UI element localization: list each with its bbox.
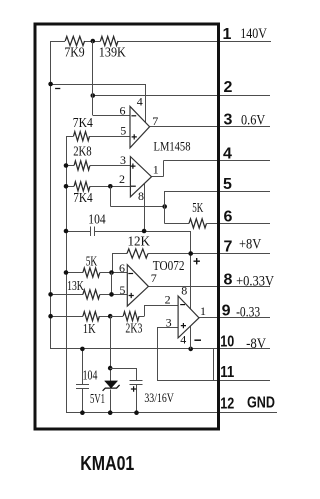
node GND rail / C33 xyxy=(134,410,139,415)
node rail A / 1K xyxy=(48,314,53,319)
resistor R 13K xyxy=(51,279,128,299)
op-amp U1b LM1458 bottom xyxy=(119,153,159,203)
pin 9 number xyxy=(222,302,231,319)
svg-text:-0.33: -0.33 xyxy=(236,304,260,320)
wire op-amp U1b output to pin 4 row xyxy=(152,161,271,177)
wire y84 to op-amp U1 pin 4 xyxy=(51,84,146,124)
capacitor C 104 (horizontal) xyxy=(66,212,191,236)
resistor R 12K xyxy=(112,235,150,259)
op-amp U2b TO072 bottom xyxy=(165,284,206,347)
wire pin 10 row (-8V net) xyxy=(51,348,270,350)
node 13K / U2 pin5 junction xyxy=(109,292,114,297)
wire pin 7 row (+8V net) xyxy=(148,253,270,255)
svg-text:+0.33V: +0.33V xyxy=(236,273,274,289)
svg-text:33/16V: 33/16V xyxy=(144,390,174,405)
pin 9 voltage label -0.33 xyxy=(236,304,260,320)
wire pin 3 row (op U1a output) xyxy=(149,126,270,128)
svg-text:4: 4 xyxy=(137,94,143,108)
svg-text:3: 3 xyxy=(120,153,126,167)
resistor R 7K4 (lower) xyxy=(66,182,130,206)
svg-text:2K8: 2K8 xyxy=(73,145,92,160)
svg-text:+8V: +8V xyxy=(239,237,262,253)
svg-text:4: 4 xyxy=(223,146,232,163)
pin 3 number xyxy=(224,112,233,129)
wire x110.3 down and right to x164.7 xyxy=(110,186,164,206)
svg-text:KMA01: KMA01 xyxy=(80,453,134,475)
svg-text:6: 6 xyxy=(224,208,233,225)
svg-text:8: 8 xyxy=(181,284,187,298)
resistor R 139K xyxy=(99,36,126,60)
pin 5 number xyxy=(223,176,232,193)
svg-text:7K4: 7K4 xyxy=(73,191,93,206)
pin 11 number xyxy=(220,364,234,381)
svg-text:12: 12 xyxy=(220,395,234,412)
pin 1 voltage label 140V xyxy=(240,26,267,42)
pin 8 number xyxy=(224,271,233,288)
wire x164.7 vertical xyxy=(164,191,166,223)
svg-text:11: 11 xyxy=(220,364,234,381)
svg-text:2: 2 xyxy=(165,292,171,306)
svg-text:5: 5 xyxy=(119,283,125,297)
wire pin 12 row GND rail xyxy=(66,412,277,414)
svg-text:0.6V: 0.6V xyxy=(241,112,266,128)
op-amp U1a LM1458 top xyxy=(120,94,159,148)
wire x111.5 vertical xyxy=(111,273,113,295)
wire x190.7 vertical to U2a pin 8 xyxy=(190,231,192,309)
node pin10 row / C104v xyxy=(80,347,85,352)
wire left rail A vertical xyxy=(50,41,52,349)
pin 12 number xyxy=(220,395,234,412)
svg-text:7K9: 7K9 xyxy=(64,46,84,61)
pin 10 voltage label -8V xyxy=(246,336,266,352)
pin 4 number xyxy=(223,146,232,163)
svg-text:104: 104 xyxy=(88,212,105,227)
node junction pin2 row xyxy=(91,93,96,98)
resistor R 7K9 xyxy=(64,36,84,60)
pin 7 number xyxy=(224,239,233,256)
zener diode D 5V1 xyxy=(90,381,120,407)
node junction A with minus mark xyxy=(48,82,60,89)
wire pin 2 row xyxy=(93,95,270,97)
node 1K / 2K3 junction xyxy=(108,314,113,319)
svg-text:TO072: TO072 xyxy=(153,258,185,273)
label U1 LM1458 xyxy=(154,138,191,153)
pin 10 number xyxy=(220,333,234,350)
pin 2 number xyxy=(224,79,233,96)
node junction 7K9/139K xyxy=(91,39,96,44)
svg-text:6: 6 xyxy=(120,103,126,117)
package outline KMA01 xyxy=(35,24,219,429)
resistor R 7K4 (upper) xyxy=(66,116,130,141)
resistor R 2K3 xyxy=(110,305,178,337)
capacitor C 104 (vertical) xyxy=(76,349,98,413)
node bus B / C104 xyxy=(64,229,69,234)
svg-text:10: 10 xyxy=(220,333,234,350)
wire x112 vertical 12K to pin6 node xyxy=(112,254,114,273)
node bus B / 5K xyxy=(64,270,69,275)
node U2b pin4 / pin10 row xyxy=(188,347,193,352)
wire pin 5 row xyxy=(165,191,270,193)
svg-text:1: 1 xyxy=(153,162,159,176)
wire bus B vertical xyxy=(66,136,68,413)
op-amp U2a TO072 top xyxy=(119,261,157,306)
svg-text:7K4: 7K4 xyxy=(73,116,93,131)
svg-text:12K: 12K xyxy=(128,235,151,250)
resistor R 5K (pin 6 row) xyxy=(165,201,270,228)
svg-text:5K: 5K xyxy=(86,255,98,270)
wire pin 11 row xyxy=(157,380,270,382)
node C104 row / U1b pin8 xyxy=(142,229,147,234)
node zener branch / cap 33 junction xyxy=(108,366,113,371)
pin 3 voltage label 0.6V xyxy=(241,112,266,128)
svg-text:2: 2 xyxy=(224,79,233,96)
svg-text:5K: 5K xyxy=(192,201,203,216)
title KMA01 xyxy=(80,453,134,475)
pin 8 voltage label +0.33V xyxy=(236,273,274,289)
svg-text:GND: GND xyxy=(247,395,275,412)
wire pin 8 row (op U2a output) xyxy=(148,286,270,288)
wire op-amp U2b output pin 9 row xyxy=(199,317,270,319)
resistor R 2K8 xyxy=(66,145,130,171)
svg-text:5: 5 xyxy=(223,176,232,193)
svg-text:1: 1 xyxy=(223,26,232,43)
pin 12 GND label xyxy=(247,395,275,412)
svg-text:8: 8 xyxy=(138,189,144,203)
svg-text:1: 1 xyxy=(200,304,206,318)
svg-text:LM1458: LM1458 xyxy=(154,138,191,153)
wire x92.8 vertical to U1 pin 6 xyxy=(93,41,131,116)
node 5K / 12K junction xyxy=(109,270,114,275)
svg-text:104: 104 xyxy=(83,369,98,384)
svg-text:3: 3 xyxy=(166,315,172,329)
svg-text:13K: 13K xyxy=(67,279,84,294)
wire pin 1 row (140V net) xyxy=(51,41,271,43)
wire op-amp U2b pin 4 drop with minus mark xyxy=(191,326,202,349)
pin 1 number xyxy=(223,26,232,43)
resistor R 5K (left) xyxy=(66,255,127,278)
node GND rail / C104v xyxy=(80,410,85,415)
svg-text:2: 2 xyxy=(119,172,125,186)
node bus B / 2K8 xyxy=(64,163,69,168)
label U2 TO072 xyxy=(153,258,185,273)
svg-text:1K: 1K xyxy=(83,322,96,337)
svg-text:7: 7 xyxy=(151,271,157,285)
wire x213 vertical pin10-pin11 tie xyxy=(213,349,215,381)
capacitor C 33/16V electrolytic with plus mark xyxy=(110,368,174,413)
svg-text:-8V: -8V xyxy=(246,336,266,352)
wire zener branch vertical x110.2 xyxy=(110,316,112,413)
svg-text:2K3: 2K3 xyxy=(125,322,142,337)
svg-text:4: 4 xyxy=(180,333,186,347)
pin 6 number xyxy=(224,208,233,225)
pin 7 voltage label +8V xyxy=(239,237,262,253)
wire op-amp U2a pin 8 drop xyxy=(144,184,146,231)
svg-text:9: 9 xyxy=(222,302,231,319)
node rail A / 13K xyxy=(48,292,53,297)
node GND rail / zener xyxy=(108,410,113,415)
svg-text:7: 7 xyxy=(224,239,233,256)
node wire y206.5 junction xyxy=(162,204,167,209)
wire U2b pin 3 feedback loop xyxy=(157,327,178,381)
svg-text:5V1: 5V1 xyxy=(90,392,105,407)
svg-text:140V: 140V xyxy=(240,26,267,42)
resistor R 1K xyxy=(51,312,111,338)
node bus B / 7K4 xyxy=(64,184,69,189)
svg-text:6: 6 xyxy=(119,261,125,275)
svg-text:7: 7 xyxy=(152,114,158,128)
node 7K4 / U1b pin 2 xyxy=(108,184,113,189)
node pin7 row junction with plus mark xyxy=(188,251,200,264)
svg-text:5: 5 xyxy=(120,124,126,138)
svg-text:3: 3 xyxy=(224,112,233,129)
svg-text:139K: 139K xyxy=(99,46,126,61)
svg-text:8: 8 xyxy=(224,271,233,288)
